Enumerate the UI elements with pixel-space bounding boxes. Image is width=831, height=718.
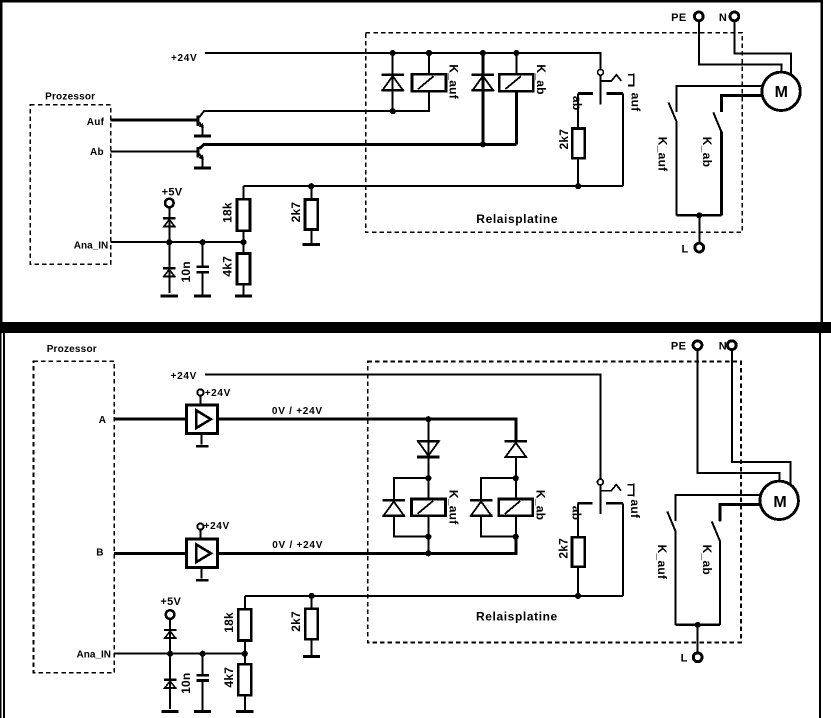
wire coil K_ab top lead [515, 53, 517, 74]
label 4k7 (top) [221, 256, 235, 277]
zener clamp upper (bottom) [164, 630, 177, 638]
svg-text:PE: PE [671, 12, 686, 24]
ground bar 2k7 (bottom) [303, 655, 320, 658]
wire coil K_auf top lead [428, 53, 430, 74]
transistor Q1 Auf [194, 111, 429, 136]
wire coil K_auf bottom lead [394, 91, 429, 111]
diode D2 (K_ab flyback) [472, 75, 495, 91]
label 0V/+24V B [272, 540, 323, 551]
ground bar buffer B [196, 579, 209, 582]
junction feedback-2k7 (bottom) [309, 593, 315, 599]
terminal +5V (bottom) [166, 610, 175, 619]
wire diode D2 branch (bold) [481, 53, 484, 144]
label +5V (top) [162, 186, 183, 198]
wire auf throw down (bottom) [622, 503, 624, 596]
label ab throw (top) [570, 96, 584, 111]
wire coil K_ab bottom lead (bottom) [515, 516, 517, 537]
terminal L (bottom) [693, 653, 702, 662]
label 10n (bottom) [179, 673, 193, 694]
label Prozessor (bottom) [47, 344, 97, 355]
capacitor 10n (top) [196, 267, 208, 272]
zener clamp lower (bottom) [164, 680, 177, 688]
label 0V/+24V A [272, 406, 323, 417]
label K_auf contact (top) [655, 137, 669, 172]
wire +24V rail (bottom) [205, 375, 600, 479]
junction feedback-switch [575, 183, 581, 189]
wire 2k7 to feedback (bottom) [577, 567, 579, 596]
wire PE to motor (bottom) [698, 350, 780, 481]
ground bar buffer A [196, 445, 209, 448]
label 10n (top) [179, 261, 193, 282]
wire A line (bold) [217, 419, 515, 440]
svg-text:PE: PE [671, 340, 686, 352]
ground bar 2k7 (top) [303, 243, 320, 246]
svg-text:auf: auf [628, 93, 642, 113]
wire +5V clamp (bottom) [169, 619, 171, 654]
terminal N (bottom) [727, 341, 736, 350]
svg-text:2k7: 2k7 [289, 611, 303, 632]
svg-text:0V / +24V: 0V / +24V [272, 406, 323, 417]
svg-text:10n: 10n [179, 673, 193, 694]
label +24V buffer A [205, 388, 231, 399]
wire PE to motor [699, 21, 782, 72]
svg-text:B: B [96, 547, 103, 558]
wire motor to K_ab contact (bold) [721, 96, 762, 112]
terminal +24V buffer B [197, 524, 203, 530]
wire D2 series lower lead [515, 457, 517, 478]
ground bar clamp (top) [161, 294, 178, 297]
wire feedback line (top) [244, 185, 624, 187]
junction Ana_IN-10n [200, 239, 206, 245]
resistor 2k7 switch (top) [572, 129, 585, 159]
wire motor to K_ab contact (bottom, bold) [720, 505, 761, 521]
svg-text:ab: ab [570, 506, 584, 521]
junction B-K_auf [425, 550, 431, 556]
svg-text:N: N [719, 12, 727, 24]
label N (bottom) [719, 340, 727, 352]
wire flyback K_ab bottom [481, 516, 516, 537]
label Relaisplatine (bottom) [476, 609, 558, 623]
junction rail-K_ab [513, 50, 519, 56]
junction Ana_IN-18k [240, 239, 246, 245]
wire buffer A ground stub [201, 433, 203, 444]
wire 10n bottom lead [202, 273, 204, 294]
svg-text:K_ab: K_ab [534, 490, 548, 520]
label A [99, 415, 106, 426]
label +24V rail (top) [171, 53, 197, 64]
svg-text:18k: 18k [221, 202, 235, 223]
svg-text:Auf: Auf [87, 117, 105, 128]
svg-text:0V / +24V: 0V / +24V [272, 540, 323, 551]
svg-text:+24V: +24V [171, 371, 197, 382]
wire contact common bar (bottom) [675, 624, 720, 627]
svg-text:+5V: +5V [160, 596, 181, 608]
wire coil K_ab top lead (bottom) [515, 478, 517, 499]
wire D1 series branch [427, 419, 429, 478]
label auf throw (top) [628, 93, 642, 113]
svg-text:10n: 10n [179, 261, 193, 282]
wire to flyback K_auf [394, 478, 429, 500]
resistor 18k (bottom) [238, 609, 251, 640]
svg-text:Ana_IN: Ana_IN [74, 240, 108, 251]
ground bar 4k7 (bottom) [236, 710, 253, 713]
wire coil K_auf bottom lead (bottom) [427, 516, 429, 556]
junction rail-K_auf [426, 50, 432, 56]
svg-text:4k7: 4k7 [222, 667, 236, 688]
ground bar 4k7 (top) [235, 294, 252, 297]
svg-text:Prozessor: Prozessor [47, 344, 97, 355]
wire coil K_ab bottom lead (bold) [515, 91, 518, 144]
label +24V buffer B [204, 521, 230, 532]
svg-text:K_auf: K_auf [655, 137, 669, 172]
label Ana_IN (bottom) [77, 650, 111, 661]
svg-text:auf: auf [628, 499, 642, 519]
svg-text:+24V: +24V [171, 53, 197, 64]
label 2k7 switch (bottom) [557, 538, 571, 559]
resistor 4k7 (top) [237, 254, 250, 285]
label +24V rail (bottom) [171, 371, 197, 382]
wire 18k top lead [243, 186, 245, 199]
relay board box (bottom) [368, 362, 741, 643]
label L (top) [681, 243, 688, 255]
relay coil K_auf (bottom) [412, 499, 446, 516]
junction Ana_IN-18k (bottom) [242, 651, 248, 657]
svg-text:2k7: 2k7 [557, 129, 571, 150]
label N (top) [719, 12, 727, 24]
label 2k7 network (bottom) [289, 611, 303, 632]
svg-text:K_auf: K_auf [446, 490, 460, 525]
wire ab throw to resistor [577, 94, 579, 129]
label 2k7 switch (top) [557, 129, 571, 150]
label K_ab contact (bottom) [700, 545, 714, 575]
relay coil K_auf (top) [412, 74, 446, 91]
motor M (top) [762, 72, 800, 110]
terminal PE (top) [694, 12, 703, 21]
ground bar clamp (bottom) [162, 710, 179, 713]
label Auf [87, 117, 105, 128]
label Relaisplatine (top) [476, 212, 558, 226]
svg-text:K_ab: K_ab [534, 64, 548, 94]
junction K_auf flyback [425, 534, 431, 540]
resistor 2k7 network (top) [305, 200, 318, 230]
svg-text:+24V: +24V [205, 388, 231, 399]
end switch changeover (bottom) [578, 479, 634, 514]
terminal PE (bottom) [693, 341, 702, 350]
wire lower clamp (bottom) [169, 654, 171, 709]
diode flyback K_ab (bottom) [470, 500, 493, 516]
wire +5V clamp [168, 207, 170, 242]
label 4k7 (bottom) [222, 667, 236, 688]
wire Auf base (bold) [111, 118, 197, 121]
svg-text:Ab: Ab [90, 147, 104, 158]
zener clamp lower (top) [163, 268, 176, 276]
svg-text:K_auf: K_auf [447, 64, 461, 99]
wire N to motor (bottom) [732, 350, 791, 485]
junction Ab-D2 [480, 141, 486, 147]
wire diode D1 branch [392, 53, 394, 111]
junction Auf-D1 [390, 108, 396, 114]
resistor 2k7 network (bottom) [305, 609, 318, 640]
wire flyback K_auf bottom [394, 516, 429, 537]
junction Ana_IN-clamp (bottom) [167, 651, 173, 657]
label Prozessor (top) [45, 91, 95, 102]
wire buffer A supply [199, 395, 201, 405]
svg-text:A: A [99, 415, 106, 426]
svg-text:+24V: +24V [204, 521, 230, 532]
wire motor to K_auf contact [677, 86, 762, 112]
wire 18k top lead (bottom) [244, 596, 246, 609]
label +5V (bottom) [160, 596, 181, 608]
wire 2k7 net bottom lead (bottom) [311, 639, 313, 655]
svg-text:M: M [775, 84, 788, 101]
wire buffer B ground stub [201, 568, 203, 579]
processor box (top) [30, 105, 111, 264]
junction Ana_IN-10n (bottom) [200, 651, 206, 657]
label K_ab coil (top) [534, 64, 548, 94]
terminal +24V buffer A [197, 389, 203, 395]
motor M (bottom) [760, 481, 798, 519]
zener clamp upper (top) [163, 218, 176, 226]
relay board box (top) [366, 33, 743, 233]
wire ab throw to resistor (bottom) [577, 503, 579, 537]
contact K_ab (top) [713, 96, 721, 216]
wire contact common bar (top) [677, 214, 722, 217]
wire to flyback K_ab [481, 478, 516, 500]
svg-text:L: L [681, 243, 688, 255]
junction rail-D2 [480, 50, 486, 56]
contact K_ab (bottom) [712, 505, 720, 625]
label M (top) [775, 84, 788, 101]
label M (bottom) [773, 494, 786, 511]
junction L (top) [696, 212, 702, 218]
wire Ab base [111, 151, 197, 153]
svg-text:Prozessor: Prozessor [45, 91, 95, 102]
junction D1-coil [425, 475, 431, 481]
label K_ab contact (top) [700, 137, 714, 167]
label Ab [90, 147, 104, 158]
ground bar 10n (top) [194, 294, 211, 297]
junction L (bottom) [695, 622, 701, 628]
wire B line (bold) [217, 537, 515, 554]
wire A to buffer (bold) [114, 418, 186, 421]
svg-text:Ana_IN: Ana_IN [77, 650, 111, 661]
svg-text:18k: 18k [222, 612, 236, 633]
svg-text:Relaisplatine: Relaisplatine [476, 212, 558, 226]
terminal L (top) [695, 243, 704, 252]
junction rail-D1 [390, 50, 396, 56]
ground bar 10n (bottom) [194, 710, 211, 713]
wire to L terminal (bottom) [697, 625, 699, 653]
resistor 2k7 switch (bottom) [572, 537, 585, 567]
diode D2 series (up) [505, 441, 528, 457]
capacitor 10n (bottom) [196, 675, 208, 680]
label PE (top) [671, 12, 686, 24]
buffer driver B [186, 539, 217, 567]
wire B to buffer (bold) [114, 552, 186, 555]
wire 2k7 net top lead [310, 186, 312, 199]
junction A-D1 [425, 416, 431, 422]
wire 18k-4k7 (bottom) [244, 641, 246, 665]
contact K_auf (top) [669, 86, 677, 216]
svg-text:ab: ab [570, 96, 584, 111]
junction feedback-2k7 [308, 183, 314, 189]
wire +24V rail (top) [205, 53, 601, 69]
end switch changeover (top) [578, 69, 634, 104]
svg-text:K_ab: K_ab [700, 545, 714, 575]
label auf throw (bottom) [628, 499, 642, 519]
label PE (bottom) [671, 340, 686, 352]
label K_auf contact (bottom) [655, 545, 669, 580]
label 2k7 network (top) [289, 202, 303, 223]
wire buffer B supply [199, 529, 201, 539]
diode flyback K_auf (bottom) [383, 500, 406, 516]
junction Ana_IN-clamp [166, 239, 172, 245]
junction K_ab flyback [513, 534, 519, 540]
junction D2-coil [513, 475, 519, 481]
junction feedback-switch (bottom) [575, 593, 581, 599]
svg-text:2k7: 2k7 [557, 538, 571, 559]
diode D1 series (down) [417, 441, 440, 457]
svg-text:K_ab: K_ab [700, 137, 714, 167]
diode D1 (K_auf flyback) [381, 75, 404, 91]
wire 10n top lead [202, 242, 204, 265]
label Ana_IN (top) [74, 240, 108, 251]
svg-text:L: L [681, 653, 688, 665]
wire motor to K_auf contact (bottom) [675, 495, 760, 521]
terminal +5V (top) [165, 199, 174, 208]
svg-text:N: N [719, 340, 727, 352]
wire N to motor [734, 21, 790, 75]
processor box (bottom) [34, 361, 115, 673]
wire Ana_IN (top) [111, 241, 244, 243]
resistor 18k (top) [237, 199, 250, 231]
wire auf throw down [622, 94, 624, 187]
wire lower clamp [168, 242, 170, 293]
svg-text:+5V: +5V [162, 186, 183, 198]
transistor Q2 Ab [194, 144, 516, 168]
wire to L terminal (top) [698, 215, 700, 242]
svg-text:M: M [773, 494, 786, 511]
wire 4k7 to ground (bottom) [244, 695, 246, 710]
wire 2k7 to feedback [577, 158, 579, 186]
wire 10n top lead (bottom) [202, 654, 204, 674]
label K_auf coil (top) [447, 64, 461, 99]
wire 4k7 to ground [243, 284, 245, 294]
relay coil K_ab (bottom) [499, 499, 533, 516]
label K_ab coil (bottom) [534, 490, 548, 520]
wire coil K_auf top lead (bottom) [427, 478, 429, 499]
buffer driver A [186, 405, 217, 433]
svg-text:K_auf: K_auf [655, 545, 669, 580]
wire Ana_IN (bottom) [114, 653, 245, 655]
wire 2k7 net bottom lead [310, 230, 312, 244]
terminal N (top) [730, 12, 739, 21]
contact K_auf (bottom) [667, 495, 675, 625]
label B [96, 547, 103, 558]
label K_auf coil (bottom) [446, 490, 460, 525]
resistor 4k7 (bottom) [238, 664, 251, 695]
svg-text:2k7: 2k7 [289, 202, 303, 223]
relay coil K_ab (top) [499, 74, 533, 91]
label 18k (bottom) [222, 612, 236, 633]
label L (bottom) [681, 653, 688, 665]
wire feedback line (bottom) [245, 595, 623, 597]
svg-text:4k7: 4k7 [221, 256, 235, 277]
label ab throw (bottom) [570, 506, 584, 521]
wire 10n bottom lead (bottom) [202, 682, 204, 711]
wire 18k-4k7 [243, 231, 245, 254]
svg-text:Relaisplatine: Relaisplatine [476, 609, 558, 623]
label 18k (top) [221, 202, 235, 223]
wire 2k7 net top lead (bottom) [311, 596, 313, 609]
